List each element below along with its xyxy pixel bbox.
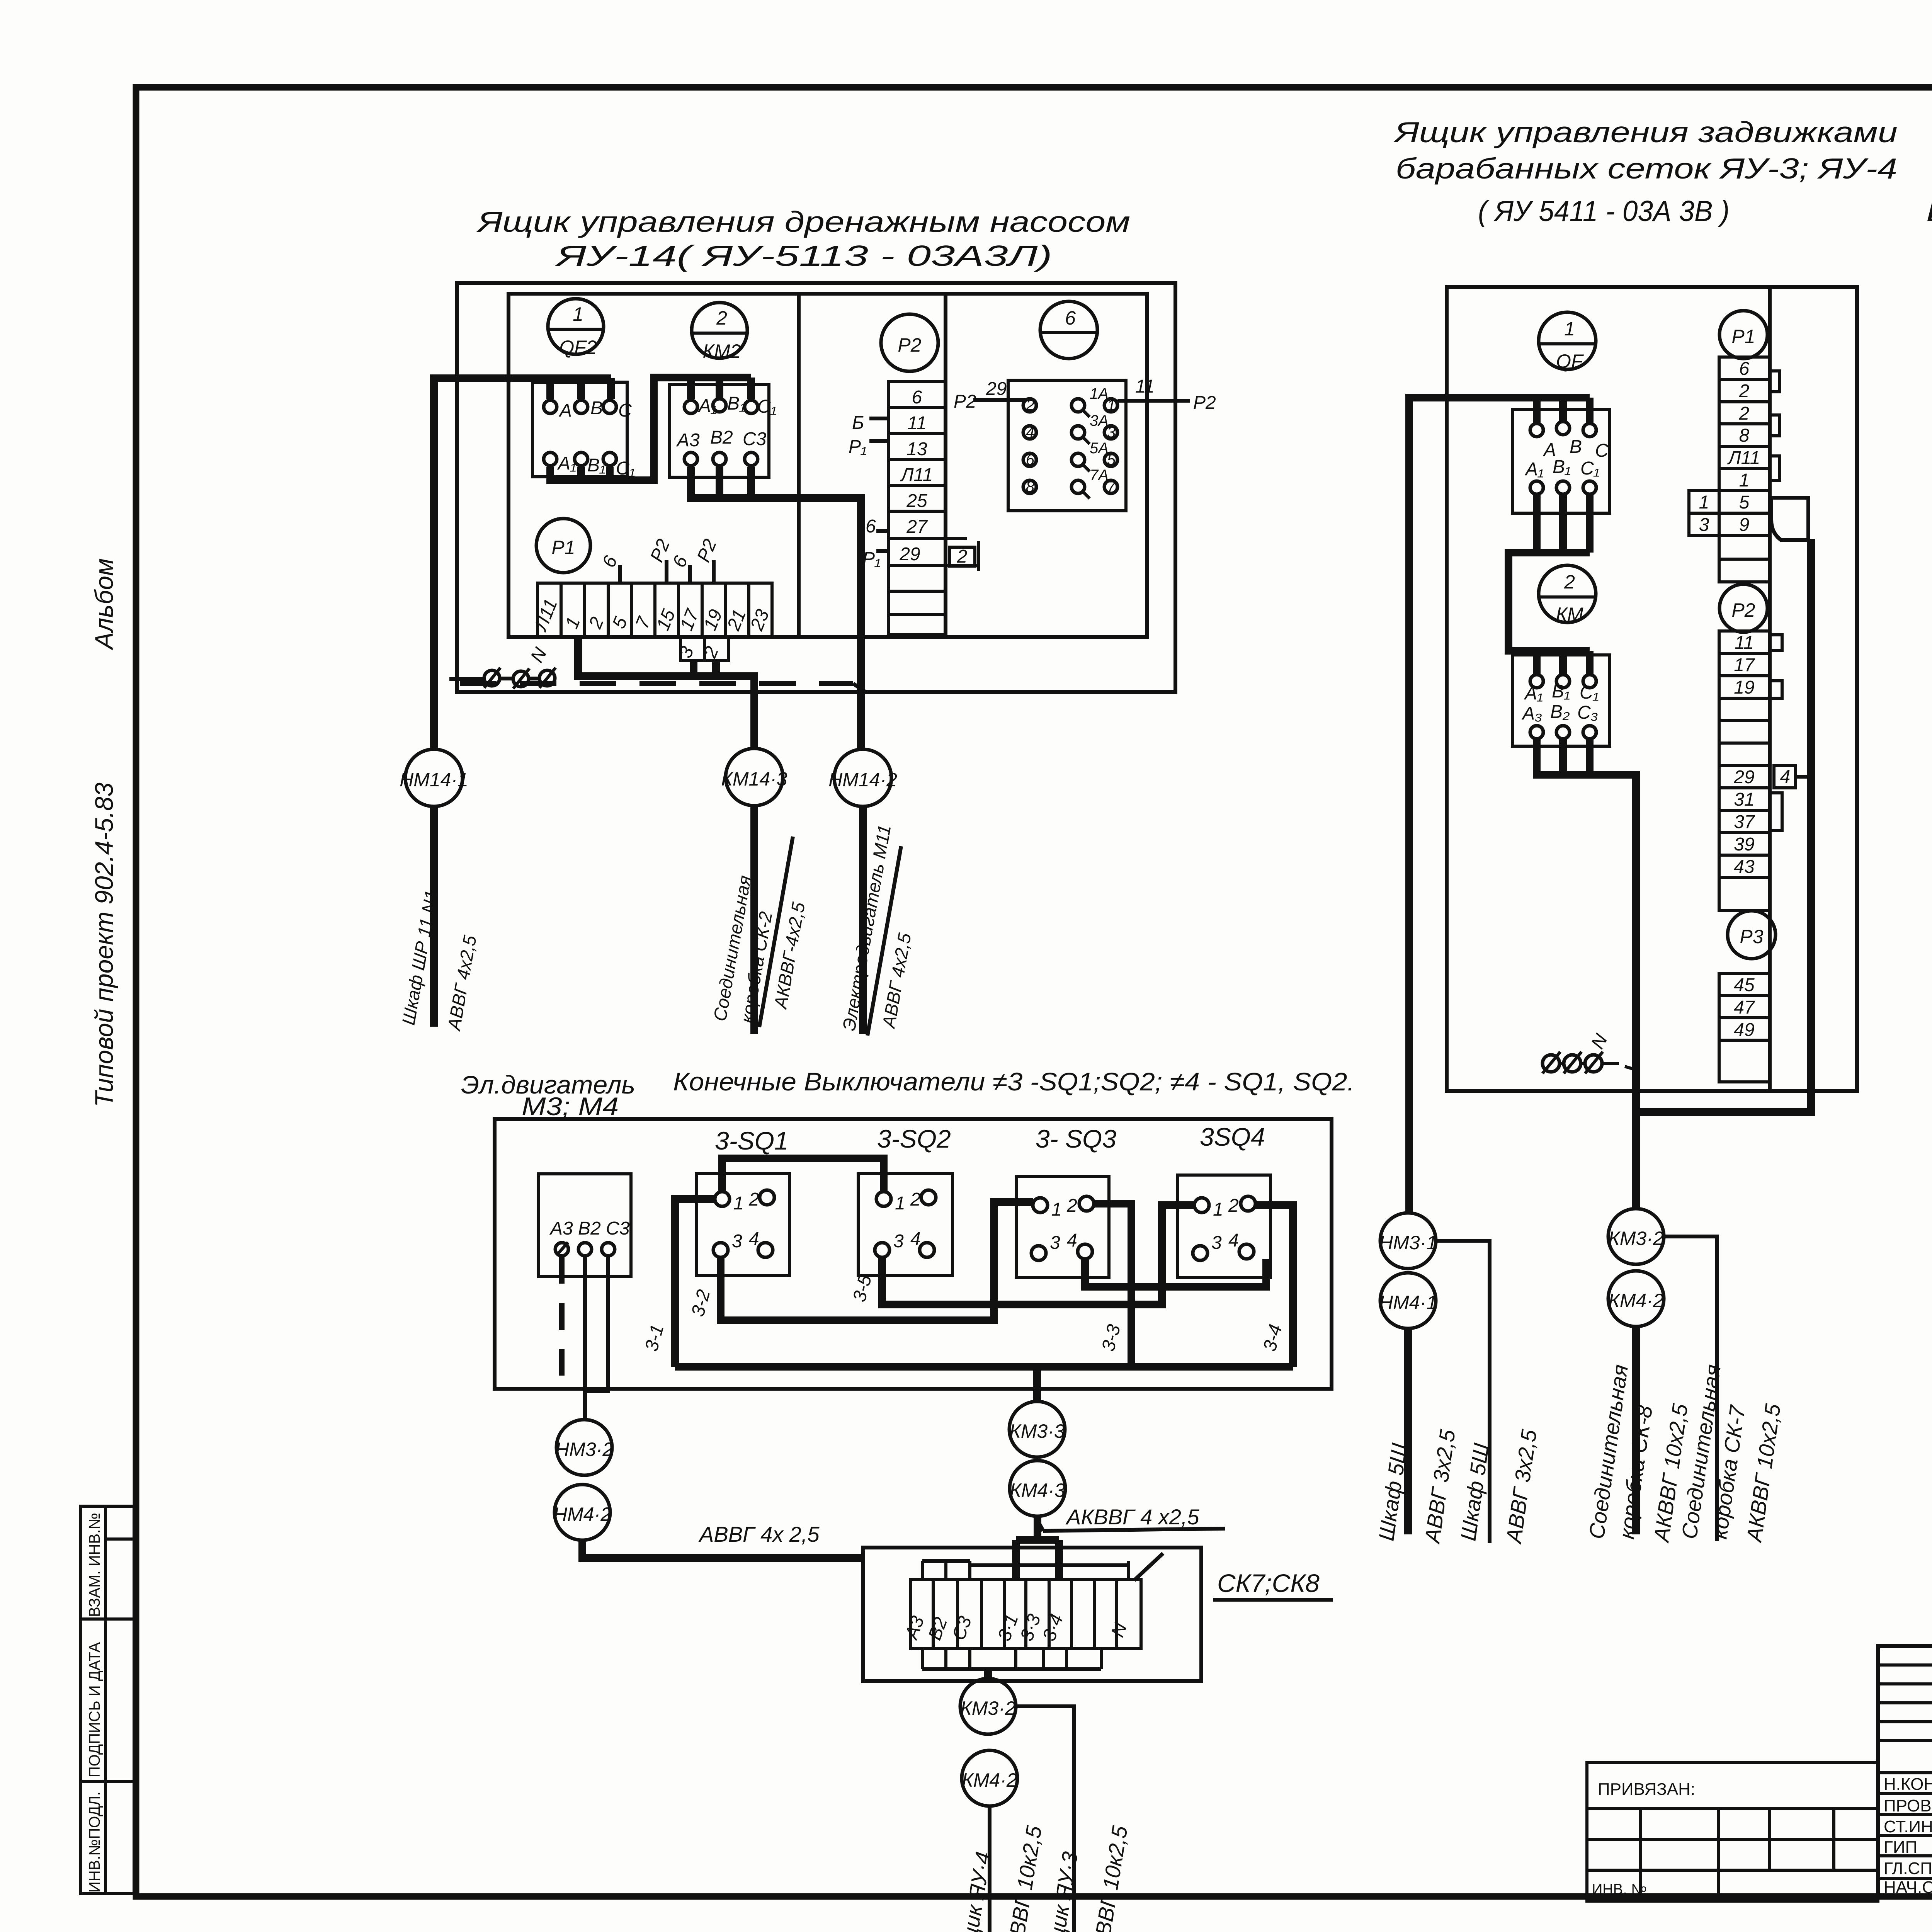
svg-text:1: 1 (733, 1193, 744, 1214)
attached table left of title block (1587, 1763, 1878, 1901)
svg-text:Р3: Р3 (1740, 926, 1763, 947)
left margin stamp table (81, 1506, 134, 1894)
svg-text:С₁: С₁ (757, 396, 777, 417)
external circle NM4-1 (1380, 1273, 1436, 1328)
svg-text:6: 6 (866, 516, 876, 537)
relay circle P2 box2 (1719, 584, 1767, 632)
KM2 lower labels A3 B2 C3 (676, 427, 767, 466)
3-SQ1 contacts (713, 1189, 774, 1257)
connection box CK7/CK8 (863, 1548, 1201, 1681)
contactor KM2 terminal box (670, 384, 769, 477)
wire 3-4 bus to SQ4-2 (1255, 1205, 1293, 1367)
aux block left lead P2-29 (954, 379, 1026, 412)
position circle 2/KM (1539, 565, 1596, 625)
P1 lower cells 3 and 2 (675, 637, 728, 661)
svg-text:3: 3 (893, 1231, 904, 1252)
svg-text:5: 5 (1107, 451, 1116, 468)
svg-text:Л11: Л11 (1727, 448, 1760, 468)
svg-text:29: 29 (986, 379, 1007, 399)
svg-text:2: 2 (1739, 381, 1750, 401)
feed wire to QF (1409, 398, 1590, 1213)
svg-text:НМ14·2: НМ14·2 (828, 769, 897, 791)
svg-text:3-SQ2: 3-SQ2 (877, 1124, 951, 1153)
svg-text:ВЗАМ. ИНВ.№: ВЗАМ. ИНВ.№ (86, 1513, 103, 1617)
svg-text:М3; М4: М3; М4 (522, 1092, 619, 1121)
svg-text:С: С (618, 400, 632, 421)
svg-text:ИНВ.№ПОДЛ.: ИНВ.№ПОДЛ. (86, 1791, 103, 1893)
svg-text:2: 2 (1066, 1196, 1077, 1216)
svg-text:Альбом: Альбом (90, 558, 118, 651)
P2 cell 4 link to riser (1774, 765, 1811, 788)
svg-text:ПОДПИСЬ И ДАТА: ПОДПИСЬ И ДАТА (86, 1642, 103, 1777)
terminal strip P2 box2 (1719, 631, 1770, 910)
wire 3-3 bus to SQ3-2 (1094, 1204, 1131, 1367)
bottom bus wire (675, 1363, 1293, 1371)
svg-text:С₃: С₃ (1577, 702, 1598, 723)
svg-text:2: 2 (1026, 397, 1034, 414)
motor terminal box M3/M4 (539, 1174, 631, 1277)
svg-text:А₁: А₁ (557, 453, 576, 474)
external circle KM4-2 lower (962, 1750, 1017, 1806)
svg-text:1: 1 (1564, 318, 1575, 340)
svg-text:19: 19 (1734, 677, 1754, 698)
svg-text:6: 6 (1065, 307, 1076, 329)
svg-text:ГИП: ГИП (1884, 1838, 1917, 1857)
svg-text:КМ3·2: КМ3·2 (960, 1697, 1016, 1719)
svg-text:ИНВ. №: ИНВ. № (1592, 1881, 1647, 1898)
external circle KM14-3 (726, 748, 783, 806)
svg-text:В₁: В₁ (1553, 457, 1571, 477)
enclosure box YaU-3 (1447, 287, 1857, 1091)
external circle KM4-3 (1010, 1461, 1065, 1516)
svg-text:3: 3 (732, 1231, 742, 1252)
svg-text:АВВГ 4х 2,5: АВВГ 4х 2,5 (698, 1522, 820, 1546)
svg-text:Конечные Выключатели ≠3 -SQ1: Конечные Выключатели ≠3 -SQ1;SQ2; ≠4 - S… (673, 1067, 1355, 1096)
svg-text:Б: Б (852, 413, 864, 433)
P2 side tabs (1770, 635, 1782, 831)
wire below KM14-3 (750, 806, 758, 1034)
svg-text:Н.КОНТР.: Н.КОНТР. (1884, 1775, 1932, 1794)
svg-text:Р2: Р2 (1193, 393, 1216, 413)
CK bottom stubs (922, 1648, 1101, 1669)
svg-text:В₁: В₁ (1552, 681, 1570, 702)
relay circle P2 (881, 314, 938, 371)
svg-text:8: 8 (1026, 478, 1035, 495)
svg-text:С3: С3 (743, 429, 767, 449)
svg-text:КМ4·2: КМ4·2 (962, 1769, 1017, 1791)
svg-text:31: 31 (1734, 789, 1754, 810)
svg-text:НМ3·2: НМ3·2 (555, 1439, 613, 1460)
aux block left terminals 2,4,6,8 (1023, 397, 1036, 495)
P2 strip left pointers (849, 413, 888, 569)
svg-text:37: 37 (1734, 812, 1755, 832)
svg-text:1: 1 (1739, 470, 1750, 491)
wire drops to QF2 top (546, 378, 554, 399)
svg-text:В: В (1570, 437, 1582, 457)
terminal strip P1 box2 (1719, 357, 1770, 582)
wire KM bottom to KM3-2 riser (1537, 740, 1636, 1209)
terminal strip P1 horizontal (530, 583, 773, 637)
limit switch 3-SQ2 box (858, 1173, 952, 1276)
svg-text:1: 1 (1107, 397, 1116, 414)
svg-text:2: 2 (748, 1189, 759, 1210)
svg-text:11: 11 (1135, 376, 1155, 397)
svg-text:КМ: КМ (1556, 604, 1583, 625)
svg-text:2: 2 (957, 546, 968, 567)
inner panel box (509, 294, 1147, 637)
svg-text:Р1: Р1 (551, 537, 575, 558)
svg-text:1: 1 (1051, 1199, 1062, 1220)
svg-text:А₁: А₁ (1524, 459, 1544, 480)
branch wire from NM3-1 (1436, 1241, 1490, 1543)
svg-text:8: 8 (1739, 425, 1750, 446)
svg-text:1: 1 (895, 1193, 905, 1214)
svg-text:НМ3·1: НМ3·1 (1379, 1232, 1437, 1253)
svg-text:11: 11 (1735, 633, 1754, 653)
limit switch 3-SQ3 box (1016, 1177, 1109, 1277)
svg-text:29: 29 (1733, 767, 1754, 787)
svg-text:4: 4 (1228, 1230, 1239, 1251)
svg-text:КМ4·2: КМ4·2 (1608, 1290, 1664, 1311)
circuit breaker QF2 terminal box (532, 382, 627, 477)
svg-text:С₁: С₁ (616, 458, 635, 479)
svg-text:9: 9 (1739, 515, 1750, 535)
svg-text:НМ4·2: НМ4·2 (553, 1503, 611, 1525)
branch wire from KM3-2 (1664, 1236, 1717, 1541)
svg-text:НАЧ.ОТД.: НАЧ.ОТД. (1884, 1878, 1932, 1897)
dashed neutral line box1 (460, 681, 853, 686)
svg-text:6: 6 (1739, 359, 1750, 379)
wire KM2 bottom bus to NM14-2 (691, 467, 861, 749)
inner panel divider (797, 294, 801, 637)
svg-text:Р1: Р1 (1731, 326, 1755, 347)
wire KM4-3 down to bracket (1034, 1516, 1041, 1540)
motor wires down (559, 1257, 565, 1376)
svg-text:4: 4 (1026, 424, 1034, 441)
QF2 top terminals A B C (544, 398, 632, 421)
QF2 bottom terminals A1 B1 C1 (544, 452, 635, 479)
svg-text:КМ4·3: КМ4·3 (1010, 1480, 1065, 1501)
wire QF2 bottom to KM2 top (550, 378, 751, 480)
KM top terminals (1524, 675, 1599, 704)
svg-text:2: 2 (910, 1189, 921, 1210)
CK strip cells (901, 1580, 1141, 1648)
svg-text:НМ4·1: НМ4·1 (1379, 1292, 1437, 1313)
branch wire from KM3-2 lower (1016, 1706, 1074, 1932)
aux block right lead 11-P2 (1117, 376, 1216, 413)
svg-text:Р2: Р2 (898, 334, 921, 356)
svg-text:27: 27 (906, 517, 928, 537)
position circle 2/KM2 (692, 303, 747, 362)
3-SQ3 contacts (1031, 1196, 1094, 1260)
wire SQ3-4 to SQ4-4 (1085, 1259, 1266, 1287)
relay circle P1 box2 (1719, 311, 1767, 359)
wire feed bus to QF2 (434, 378, 611, 749)
svg-text:5: 5 (1739, 492, 1750, 513)
svg-text:С₁: С₁ (1580, 458, 1600, 479)
aux contact block box (1008, 380, 1126, 511)
position circle 1/QF2 (548, 299, 604, 358)
P1 connector tab to riser (1771, 498, 1808, 540)
svg-text:43: 43 (1734, 857, 1755, 877)
P1 strip pick wires to 6/P2 labels (599, 536, 721, 583)
title block signature rows (1884, 1774, 1932, 1897)
svg-text:3: 3 (1699, 515, 1709, 535)
svg-text:29: 29 (899, 544, 920, 565)
label CK7;CK8 with underline (1134, 1553, 1333, 1600)
svg-text:3: 3 (1211, 1233, 1222, 1253)
aux contact block circle 6 (1040, 301, 1097, 359)
dashed step at NM14-2 wire (853, 684, 866, 692)
enclosure divider (1768, 287, 1772, 1091)
wire stubs cells 3,2 to bus (690, 661, 697, 676)
svg-text:2: 2 (1739, 403, 1750, 424)
3SQ4 contacts (1193, 1196, 1255, 1260)
svg-text:А₃: А₃ (1521, 703, 1542, 724)
neutral slashed terminals N (449, 644, 556, 689)
title block left grid (1878, 1646, 1932, 1901)
svg-text:1: 1 (1213, 1199, 1223, 1220)
P2 link cell 2 box (949, 541, 978, 571)
svg-text:11: 11 (907, 413, 927, 434)
svg-text:В₁: В₁ (727, 393, 745, 414)
external circle NM4-2 (554, 1485, 610, 1540)
wire below NM14-1 (430, 806, 438, 1027)
wire 3-2 SQ1-3 to SQ3-1 (721, 1202, 1033, 1320)
svg-text:2: 2 (1564, 571, 1575, 593)
external circle NM14-2 (834, 749, 891, 806)
external circle KM3-3 (1009, 1401, 1065, 1457)
svg-text:ПРОВЕР.: ПРОВЕР. (1884, 1796, 1932, 1815)
svg-text:( ЯУ 5411 - 03А 3В ): ( ЯУ 5411 - 03А 3В ) (1478, 195, 1730, 227)
svg-text:3-SQ1: 3-SQ1 (715, 1126, 789, 1155)
svg-text:QF: QF (1556, 350, 1584, 372)
svg-text:ГЛ.СПЕЦ.: ГЛ.СПЕЦ. (1884, 1859, 1932, 1878)
KM2 top terminals A1 B1 C1 (684, 393, 777, 417)
wire below NM4-1 (1404, 1328, 1412, 1534)
svg-text:4: 4 (1067, 1230, 1077, 1251)
drops to QF top (1533, 398, 1541, 423)
svg-text:7: 7 (1107, 478, 1116, 495)
svg-text:Р2: Р2 (954, 391, 976, 412)
QF bottom terminals A1 B1 C1 (1524, 457, 1600, 494)
P1 sub cells 1,3 (1689, 491, 1719, 536)
svg-text:47: 47 (1734, 997, 1755, 1018)
external circle NM14-1 (405, 749, 463, 806)
CK top stubs (922, 1561, 1129, 1580)
motor terminals (555, 1242, 615, 1256)
svg-text:СТ.ИНЖ.: СТ.ИНЖ. (1884, 1817, 1932, 1836)
svg-text:КМ3·3: КМ3·3 (1009, 1420, 1065, 1442)
svg-text:АКВВГ 4 х2,5: АКВВГ 4 х2,5 (1065, 1505, 1199, 1529)
wire 3-5 SQ2-3 to SQ4-1 (882, 1205, 1194, 1304)
svg-text:3: 3 (1107, 424, 1116, 441)
wire below NM14-2 (859, 806, 867, 1034)
svg-text:17: 17 (1734, 655, 1755, 675)
svg-text:КМ14·3: КМ14·3 (721, 768, 787, 790)
svg-text:НМ14·1: НМ14·1 (400, 769, 468, 791)
wire P1 strip to KM14-3 (578, 637, 754, 748)
svg-text:А: А (558, 400, 572, 421)
svg-text:В: В (590, 398, 603, 418)
title block outline (1878, 1646, 1932, 1896)
svg-text:3: 3 (1050, 1233, 1060, 1253)
QF top terminals A B C (1530, 422, 1609, 461)
svg-text:КМ3·2: КМ3·2 (1608, 1228, 1664, 1249)
external circle KM3-2 lower (960, 1679, 1016, 1734)
wire below KM4-2 (1632, 1327, 1640, 1534)
wire QF bottom to KM top (1509, 495, 1537, 651)
limit switch enclosure (495, 1119, 1332, 1389)
svg-text:6: 6 (1026, 451, 1035, 468)
limit switch 3-SQ1 box (697, 1173, 789, 1276)
outer enclosure box YaU-14 (457, 283, 1175, 692)
aux block right terminals 1,3,5,7 (1104, 397, 1117, 495)
relay circle P3 box2 (1728, 911, 1776, 959)
circuit breaker QF terminal box (1512, 410, 1610, 513)
svg-text:39: 39 (1734, 834, 1754, 855)
svg-text:В2: В2 (710, 427, 733, 448)
external circle NM3-1 (1380, 1213, 1436, 1269)
svg-text:1: 1 (573, 303, 583, 325)
bold junction to strips riser (1636, 539, 1811, 1112)
KM lower labels and terminals (1521, 702, 1598, 739)
svg-text:Ящик управления задвижками: Ящик управления задвижками (1393, 116, 1898, 148)
wire bus drop to KM3-3 (1033, 1367, 1041, 1401)
svg-text:6: 6 (912, 387, 922, 408)
svg-text:QF2: QF2 (559, 337, 597, 358)
svg-text:КМ2: КМ2 (703, 340, 741, 362)
external circle KM3-2 (1608, 1209, 1664, 1264)
svg-text:25: 25 (906, 491, 927, 511)
svg-text:В₁: В₁ (587, 455, 605, 476)
3-SQ2 contacts (875, 1189, 936, 1257)
aux block middle terminals 1A,3A,5A,7A (1071, 385, 1109, 498)
svg-text:А₁: А₁ (1524, 683, 1543, 704)
wire 3-1 from SQ1-1 to bottom bus (675, 1199, 715, 1367)
svg-text:А3 В2 С3: А3 В2 С3 (549, 1218, 630, 1239)
external circle NM3-2 (556, 1420, 612, 1475)
terminal strip P2 vertical box1 (888, 382, 978, 635)
svg-text:С₁: С₁ (1580, 682, 1599, 703)
svg-text:Л11: Л11 (900, 465, 933, 485)
svg-text:4: 4 (910, 1229, 921, 1249)
cable label AKVVG with leader (1037, 1505, 1225, 1531)
contactor KM terminal box (1512, 655, 1610, 746)
wire CK to KM3-2 (984, 1669, 992, 1679)
svg-text:3SQ4: 3SQ4 (1200, 1122, 1265, 1151)
external circle KM4-2 (1608, 1271, 1664, 1327)
P1 side tabs (1770, 371, 1780, 480)
svg-text:Р₁: Р₁ (849, 437, 867, 457)
svg-text:49: 49 (1734, 1020, 1754, 1040)
svg-text:4: 4 (1780, 767, 1791, 787)
svg-text:Ящик управления дренажным н: Ящик управления дренажным насосом (476, 206, 1130, 238)
wire SQ1-1 to SQ2-1 top link (722, 1158, 884, 1192)
wire below KM4-2 lower (988, 1806, 992, 1932)
svg-text:2: 2 (1228, 1196, 1239, 1216)
svg-text:Типовой проект 902.4-5.83: Типовой проект 902.4-5.83 (90, 782, 118, 1107)
svg-text:2: 2 (716, 307, 727, 329)
wire NM4-2 to CK box (582, 1540, 863, 1558)
neutral slashed terminals N box2 (1543, 1031, 1635, 1073)
bold pair into CK cells (1016, 1540, 1059, 1580)
svg-text:1: 1 (1699, 492, 1709, 513)
svg-text:13: 13 (906, 439, 927, 459)
terminal strip P3 box2 (1719, 973, 1770, 1082)
svg-text:СК7;СК8: СК7;СК8 (1217, 1569, 1320, 1597)
svg-text:ПРИВЯЗАН:: ПРИВЯЗАН: (1598, 1780, 1695, 1799)
svg-text:А3: А3 (676, 430, 700, 451)
position circle 1/QF (1539, 312, 1596, 372)
svg-text:45: 45 (1734, 975, 1755, 995)
limit switch 3SQ4 box (1178, 1175, 1270, 1277)
svg-text:Р2: Р2 (1731, 599, 1755, 621)
svg-text:Шкаф 5Ш: Шкаф 5Ш (1926, 195, 1932, 227)
svg-text:3- SQ3: 3- SQ3 (1036, 1124, 1116, 1153)
relay circle P1 (536, 519, 590, 573)
svg-text:А₁: А₁ (697, 396, 717, 416)
svg-text:ЯУ-14( ЯУ-5113 - 03А3Л): ЯУ-14( ЯУ-5113 - 03А3Л) (554, 240, 1052, 272)
svg-text:4: 4 (749, 1229, 759, 1249)
svg-text:барабанных сеток ЯУ-3; ЯУ-4: барабанных сеток ЯУ-3; ЯУ-4 (1396, 152, 1897, 185)
svg-text:В₂: В₂ (1550, 702, 1570, 722)
